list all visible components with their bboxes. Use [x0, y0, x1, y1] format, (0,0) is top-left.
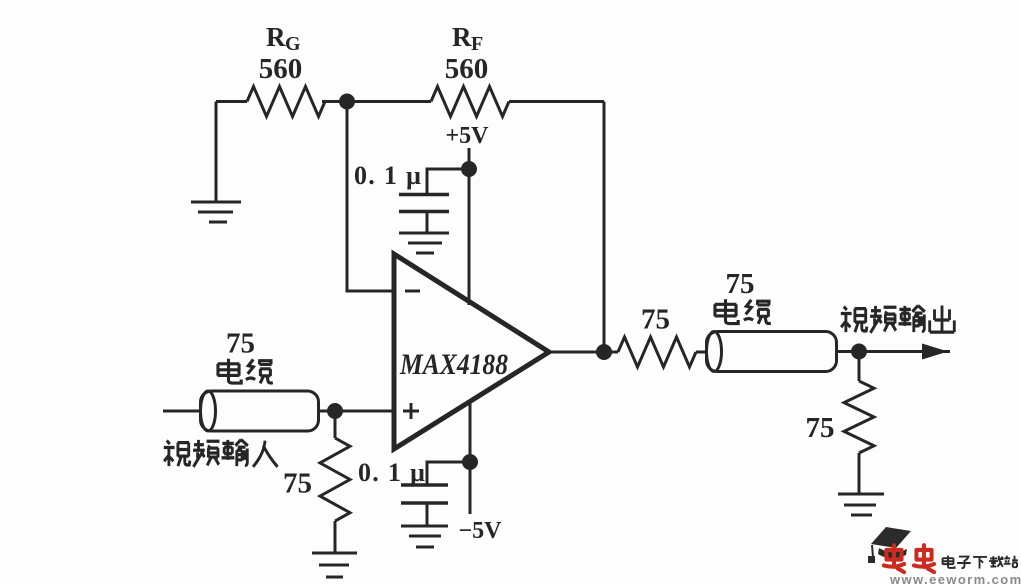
svg-text:75: 75 [226, 328, 255, 360]
svg-text:560: 560 [445, 53, 489, 85]
svg-text:560: 560 [259, 53, 303, 85]
svg-text:R: R [452, 22, 472, 52]
svg-text:75: 75 [283, 468, 312, 500]
svg-text:R: R [266, 22, 286, 52]
svg-text:75: 75 [806, 412, 835, 444]
svg-text:0. 1 µ: 0. 1 µ [354, 161, 422, 190]
svg-text:−5V: −5V [458, 518, 502, 544]
svg-text:MAX4188: MAX4188 [399, 348, 508, 381]
svg-text:+5V: +5V [445, 123, 489, 149]
svg-text:G: G [285, 33, 301, 55]
svg-text:F: F [471, 33, 483, 55]
svg-text:75: 75 [641, 304, 670, 336]
svg-text:75: 75 [726, 268, 755, 300]
svg-text:0. 1 µ: 0. 1 µ [358, 458, 426, 487]
svg-text:www.eeworm.com: www.eeworm.com [889, 572, 1021, 585]
